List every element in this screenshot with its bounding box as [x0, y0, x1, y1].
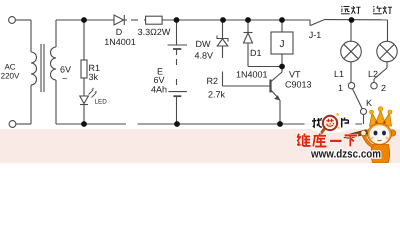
svg-text:L2: L2 [368, 69, 378, 79]
svg-text:DW: DW [196, 39, 211, 49]
svg-text:www.dzsc.com: www.dzsc.com [310, 149, 381, 161]
svg-text:~: ~ [62, 74, 67, 84]
svg-text:AC: AC [4, 63, 15, 72]
svg-text:4Ah: 4Ah [151, 85, 167, 95]
svg-text:4.8V: 4.8V [194, 51, 213, 61]
svg-text:D1: D1 [250, 48, 262, 58]
svg-text:K: K [366, 98, 372, 108]
svg-text:3k: 3k [89, 72, 99, 82]
svg-text:R2: R2 [206, 76, 218, 86]
svg-text:J-1: J-1 [309, 30, 322, 40]
svg-text:L1: L1 [334, 69, 344, 79]
svg-text:6V: 6V [153, 75, 164, 85]
svg-text:J: J [280, 39, 285, 50]
svg-text:VT: VT [289, 70, 301, 80]
svg-text:1N4001: 1N4001 [236, 70, 268, 80]
svg-text:LED: LED [95, 99, 108, 106]
svg-text:220V: 220V [1, 72, 20, 81]
svg-text:D: D [116, 27, 123, 37]
svg-text:3.3Ω2W: 3.3Ω2W [138, 27, 171, 37]
svg-text:2.7k: 2.7k [208, 90, 226, 100]
svg-text:C9013: C9013 [285, 80, 312, 90]
svg-text:1N4001: 1N4001 [104, 37, 136, 47]
svg-text:1: 1 [338, 83, 343, 93]
svg-text:2: 2 [381, 83, 386, 93]
